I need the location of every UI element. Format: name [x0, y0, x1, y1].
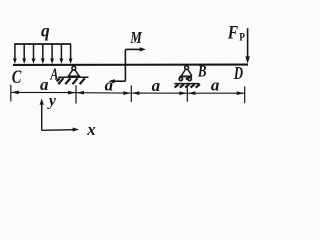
- svg-text:C: C: [12, 67, 22, 88]
- svg-text:P: P: [239, 31, 245, 43]
- svg-text:B: B: [197, 62, 206, 81]
- svg-text:a: a: [105, 76, 114, 95]
- svg-text:x: x: [86, 120, 96, 139]
- svg-text:a: a: [211, 76, 220, 95]
- svg-text:M: M: [130, 28, 143, 47]
- svg-text:A: A: [50, 64, 59, 83]
- svg-text:D: D: [233, 63, 243, 83]
- svg-text:q: q: [41, 20, 50, 40]
- svg-text:a: a: [152, 76, 161, 95]
- svg-text:F: F: [227, 24, 239, 44]
- svg-text:y: y: [47, 93, 56, 110]
- svg-text:a: a: [40, 75, 49, 94]
